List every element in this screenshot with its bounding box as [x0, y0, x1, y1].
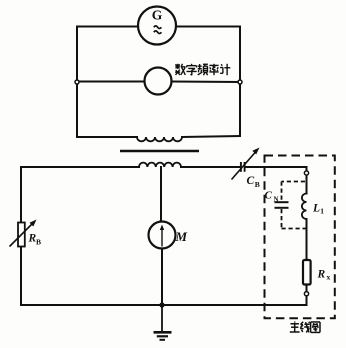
svg-text:x: x — [327, 273, 331, 282]
wire L1 to RX — [306, 219, 308, 260]
svg-text:M: M — [175, 229, 188, 244]
generator U G circle — [138, 7, 176, 45]
wire left vertical upper — [20, 167, 22, 223]
resistor RB body — [18, 223, 25, 247]
wire right branch corner to node — [306, 167, 308, 171]
wire top rect right vertical — [239, 27, 241, 137]
wire RX to node — [306, 285, 308, 292]
wire left vertical lower — [20, 247, 22, 306]
wire meter to bottom rail — [161, 248, 163, 305]
node: coil terminal top — [304, 171, 308, 175]
capacitor CN dashed leads — [282, 182, 306, 229]
wire secondary top rail left — [21, 166, 139, 168]
node: bottom rail junction — [159, 302, 164, 307]
wire frequency-meter left lead — [77, 81, 145, 83]
transformer primary winding — [137, 137, 182, 141]
wire generator right lead — [176, 26, 241, 28]
label: digital frequency meter (Chinese) — [175, 64, 230, 75]
svg-text:C: C — [247, 175, 255, 187]
svg-text:B: B — [36, 238, 41, 247]
transformer core — [120, 150, 199, 153]
svg-text:N: N — [274, 196, 279, 204]
wire node to L1 — [306, 175, 308, 193]
node: junction left of frequency meter — [75, 80, 79, 84]
label: main coil (Chinese) — [290, 322, 320, 333]
svg-text:C: C — [265, 190, 273, 202]
meter M needle arrow — [161, 228, 163, 247]
transformer secondary winding — [139, 163, 181, 167]
wire CB to box junction — [246, 166, 307, 168]
capacitor CB arrow — [232, 152, 256, 180]
resistor RB arrow — [10, 224, 33, 247]
svg-text:B: B — [255, 180, 260, 189]
ground — [154, 305, 172, 340]
wire bottom rail — [21, 304, 307, 306]
dashed box (main coil under test) — [265, 156, 335, 319]
wire center tap down to meter — [160, 167, 162, 222]
wire frequency-meter right lead — [172, 81, 241, 84]
capacitor CN plates — [275, 201, 289, 203]
inductor L1 winding — [302, 194, 307, 220]
svg-text:R: R — [317, 269, 326, 281]
wire secondary top rail right to CB — [181, 166, 240, 168]
digital frequency meter circle — [145, 68, 172, 95]
resistor RX body — [303, 260, 311, 285]
wire transformer primary left segment — [77, 136, 137, 138]
svg-text:L: L — [312, 203, 320, 215]
svg-text:1: 1 — [320, 207, 324, 216]
wire transformer primary right segment — [182, 136, 240, 137]
wire top rect left vertical — [76, 27, 78, 138]
meter M circle — [149, 222, 176, 249]
node: coil terminal bottom — [304, 292, 308, 296]
wire node to bottom rail — [306, 296, 308, 305]
capacitor CB plates — [240, 162, 242, 172]
wire generator left lead — [77, 26, 139, 28]
svg-text:G: G — [152, 8, 163, 23]
node: junction right of frequency meter — [238, 80, 242, 84]
